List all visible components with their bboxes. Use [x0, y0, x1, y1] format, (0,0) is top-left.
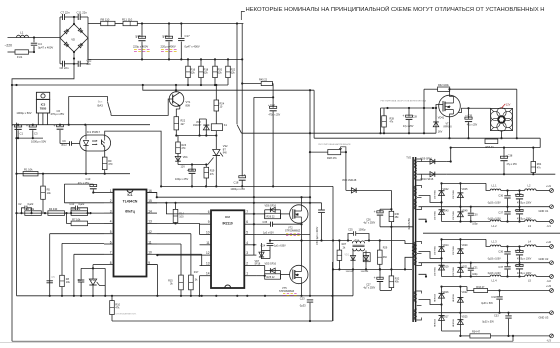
svg-text:VD41: VD41	[438, 117, 445, 120]
wire G1 collect rail	[440, 182, 490, 190]
wire pin11 row	[157, 244, 181, 275]
wire -U3 to terminal	[491, 335, 550, 337]
op-amp IC2 IR2110	[200, 210, 257, 288]
wire G2 collect rail	[440, 238, 490, 246]
wire +U3 rail	[488, 289, 550, 291]
wire -U3 rail	[442, 331, 470, 337]
svg-text:~220: ~220	[5, 44, 13, 48]
resistor R5 10k	[41, 174, 52, 213]
svg-text:HER108: HER108	[434, 318, 436, 327]
svg-text:L1.2: L1.2	[492, 224, 498, 228]
svg-text:VD45: VD45	[462, 188, 469, 191]
wire fan rail left col	[423, 89, 425, 133]
svg-text:GND U3: GND U3	[539, 315, 549, 319]
transformer secondary winding 2	[414, 242, 421, 266]
svg-text:220µ x 400V: 220µ x 400V	[133, 45, 148, 49]
capacitor C6 470u	[51, 109, 65, 144]
svg-text:VD10 SF16: VD10 SF16	[420, 178, 434, 181]
bridge diode top-left	[64, 29, 69, 34]
svg-text:0µ22: 0µ22	[28, 202, 34, 206]
wire +U2 rail	[501, 245, 550, 247]
resistor R29 360	[378, 239, 388, 269]
wire GND U3 rail	[419, 312, 550, 314]
resistor R26 22	[265, 213, 281, 218]
wire VT3 gate	[435, 105, 443, 110]
svg-text:VD6 SF16: VD6 SF16	[265, 205, 277, 208]
svg-text:C3: C3	[34, 131, 38, 135]
svg-text:7805: 7805	[40, 107, 47, 111]
svg-text:+U1: +U1	[546, 184, 552, 188]
zener VD1 12V	[175, 154, 188, 169]
svg-text:10: 10	[148, 251, 152, 255]
svg-text:C36: C36	[498, 250, 503, 253]
wire fuse up to C4	[33, 46, 35, 52]
resistor R7 10k	[67, 213, 105, 226]
svg-text:IR2110: IR2110	[223, 221, 233, 225]
svg-text:13: 13	[206, 261, 210, 265]
svg-text:15ETH06: 15ETH06	[434, 210, 436, 220]
diode VD20 15ETH06	[453, 239, 468, 262]
capacitor C24 1u0 630V	[261, 241, 287, 251]
wire C1 C3 ground rail	[17, 137, 44, 139]
svg-text:15ETH06: 15ETH06	[434, 266, 436, 276]
wire fan bottom lead	[501, 131, 503, 139]
svg-text:1000µ x 50V: 1000µ x 50V	[16, 111, 31, 115]
transformer primary winding	[405, 241, 414, 270]
wire fan top rail	[424, 88, 517, 90]
op-amp IC1 TL494CN	[104, 189, 157, 277]
svg-text:+ C38: + C38	[506, 154, 513, 157]
svg-text:1µ0 x 63V: 1µ0 x 63V	[263, 231, 274, 234]
svg-text:VD25: VD25	[462, 316, 469, 319]
svg-text:GND U2: GND U2	[539, 257, 549, 261]
svg-text:R11 110: R11 110	[122, 17, 133, 21]
svg-text:C33: C33	[494, 315, 499, 318]
resistor R34 47	[470, 331, 491, 338]
terminal +U3	[546, 284, 553, 292]
transistor VT3 IRF640	[439, 89, 461, 128]
terminal GND U3	[539, 311, 554, 320]
svg-text:K1: K1	[224, 123, 228, 127]
svg-text:IC2: IC2	[225, 215, 230, 219]
wire relay col down	[309, 90, 311, 296]
wire supply col 254	[253, 97, 273, 255]
wire G2 tap B	[419, 274, 428, 277]
svg-text:IC1 PC817: IC1 PC817	[87, 130, 101, 134]
bridge diode bottom-right	[78, 43, 83, 48]
wire VT1 collector	[175, 85, 177, 92]
capacitor C33 0u33 50V	[482, 313, 511, 336]
wire left rail x16	[15, 123, 17, 296]
svg-text:TL494CN: TL494CN	[123, 200, 138, 204]
svg-text:2: 2	[110, 199, 112, 203]
svg-text:360: 360	[383, 256, 388, 259]
svg-text:C25: C25	[348, 229, 353, 232]
svg-text:C7 22n: C7 22n	[61, 11, 70, 15]
svg-text:14: 14	[206, 272, 210, 276]
svg-text:11: 11	[206, 241, 210, 245]
svg-text:C16: C16	[163, 34, 169, 38]
wire pin7 row	[74, 254, 104, 295]
capacitor C36 0u33 100V	[488, 191, 511, 207]
svg-text:VD22: VD22	[462, 291, 469, 294]
svg-text:C17: C17	[185, 34, 191, 38]
capacitor C18 1000u 25V	[230, 172, 245, 191]
svg-text:1: 1	[110, 189, 112, 193]
svg-text:ТV2: ТV2	[406, 156, 411, 160]
svg-text:R2 10k: R2 10k	[26, 207, 35, 211]
wire bridge top corner	[73, 16, 75, 25]
diode VD17 HER108	[434, 305, 449, 332]
resistor R27 2k	[337, 239, 350, 269]
wire GND U2 rail	[419, 262, 550, 264]
svg-text:РЕГУЛИРОВКА ОБОРОТОВ ВЕНТИЛЯТО: РЕГУЛИРОВКА ОБОРОТОВ ВЕНТИЛЯТОРА	[381, 100, 427, 103]
capacitor C2 0u22	[18, 202, 34, 213]
svg-text:1: 1	[246, 272, 248, 276]
svg-text:16V: 16V	[438, 131, 443, 134]
svg-text:8: 8	[110, 261, 112, 265]
svg-text:+: +	[374, 210, 376, 214]
capacitor C38 47u 25V	[500, 148, 517, 175]
svg-text:VD20: VD20	[462, 244, 469, 247]
svg-text:НЕКОТОРЫЕ НОМИНАЛЫ НА ПРИНЦИПИ: НЕКОТОРЫЕ НОМИНАЛЫ НА ПРИНЦИПИАЛЬНОЙ СХЕ…	[246, 5, 545, 13]
svg-text:6: 6	[208, 210, 210, 214]
wire lower bus	[11, 84, 228, 86]
inductor L3	[525, 220, 536, 228]
svg-text:470µ x 25V: 470µ x 25V	[51, 112, 65, 116]
page separator line	[0, 342, 560, 344]
wire C27 bottom row	[380, 289, 391, 291]
wire pin2 row	[64, 202, 104, 204]
label regulator	[318, 143, 351, 146]
X-cap box around bridge	[60, 17, 88, 64]
svg-text:6: 6	[246, 220, 248, 224]
wire switch to VT1 base	[111, 99, 173, 115]
capacitor C11 22n	[77, 11, 89, 21]
terminal +U2	[546, 240, 553, 248]
thyristor VS1 TL431	[89, 268, 105, 295]
diode VD25 HER108	[453, 313, 468, 331]
capacitor C37a 0u33 100V	[488, 207, 511, 222]
svg-text:4700µ x 100V: 4700µ x 100V	[517, 258, 532, 260]
svg-text:+U2: +U2	[546, 240, 552, 244]
diode VD10 SF16	[419, 172, 556, 181]
svg-text:R32 100k: R32 100k	[438, 84, 449, 87]
svg-text:4µ7 x 250V: 4µ7 x 250V	[364, 288, 376, 290]
svg-text:R1 10k: R1 10k	[24, 168, 33, 172]
wire VD1 VS2 gate row	[178, 158, 214, 166]
svg-text:809: 809	[186, 103, 191, 107]
svg-text:0µ33: 0µ33	[300, 304, 306, 308]
svg-text:1N4007: 1N4007	[193, 124, 202, 127]
diode VD16 HER108	[434, 287, 449, 305]
svg-text:47µ x 25V: 47µ x 25V	[467, 125, 478, 127]
wire R24 to relay	[215, 111, 217, 124]
transformer fan winding	[415, 159, 422, 180]
bridge diode top-right	[78, 28, 83, 33]
wire IC2 pin12 row	[156, 254, 199, 256]
svg-text:VT1: VT1	[186, 100, 191, 104]
resistor R16 62k	[186, 59, 196, 85]
wire VD3 to R30 col	[390, 190, 392, 211]
svg-text:12V: 12V	[506, 102, 511, 106]
capacitor C40 4700u 100V	[515, 207, 532, 222]
svg-text:C1: C1	[20, 131, 24, 135]
svg-text:C11 22n: C11 22n	[77, 11, 88, 15]
svg-text:3: 3	[246, 251, 248, 255]
svg-text:L1.1: L1.1	[492, 183, 498, 187]
transformer secondary winding 1	[414, 186, 421, 210]
wire VD9 riser	[450, 148, 452, 162]
svg-text:10: 10	[206, 231, 210, 235]
resistor R33 47	[474, 286, 488, 292]
wire VS2 down	[215, 156, 217, 186]
svg-text:BA3: BA3	[98, 104, 104, 108]
wire IC2 pin7 row	[256, 210, 290, 219]
svg-text:C36: C36	[498, 194, 503, 197]
wire pin8 row	[93, 265, 104, 269]
wire pin3 row	[17, 212, 105, 214]
svg-text:15ETH06: 15ETH06	[434, 245, 436, 255]
svg-text:0µ22: 0µ22	[79, 202, 85, 206]
wire pin13 row	[157, 222, 200, 234]
capacitor C35 1u0 63V	[256, 221, 302, 235]
svg-text:GND U1: GND U1	[539, 209, 549, 213]
svg-text:1µ0 x 630V: 1µ0 x 630V	[274, 245, 286, 247]
svg-text:HER108: HER108	[453, 293, 455, 302]
terminal -U1	[547, 220, 554, 228]
wire G1 tap B	[419, 219, 428, 222]
svg-text:9: 9	[208, 220, 210, 224]
svg-text:100p: 100p	[472, 273, 478, 276]
wire IC2 pin14 down	[199, 276, 201, 296]
svg-text:R4 430: R4 430	[49, 207, 58, 211]
transformer TV1	[353, 240, 365, 251]
capacitor C15 220u 400V	[133, 24, 150, 60]
AC input label ~220	[5, 44, 13, 48]
resistor R8b 10k	[60, 275, 71, 296]
svg-text:C30: C30	[473, 213, 478, 216]
wire pin9 down	[147, 265, 158, 296]
resistor R25 22	[256, 271, 280, 280]
svg-text:4700µ x 100V: 4700µ x 100V	[517, 202, 532, 204]
wire +U1 rail	[501, 189, 550, 191]
resistor R18 62k	[199, 59, 209, 85]
wire fan reg left	[380, 108, 382, 133]
resistor R32 100k	[438, 84, 450, 92]
fuse FU1	[8, 50, 36, 59]
capacitor C37b	[488, 263, 511, 277]
svg-text:C37: C37	[498, 211, 503, 214]
bridge diode bottom-left	[64, 42, 69, 47]
wire row1 relay	[242, 132, 437, 134]
svg-text:STP20NM60Z: STP20NM60Z	[285, 230, 301, 233]
capacitor C10 0u22	[69, 202, 87, 213]
svg-text:+: +	[26, 124, 28, 128]
diode VD2 1N4007	[193, 119, 209, 137]
wire G3 tap A	[419, 300, 443, 306]
svg-text:+: +	[402, 114, 404, 118]
wire col 314	[313, 90, 315, 138]
svg-text:C27: C27	[366, 283, 371, 286]
wire C18 column	[241, 24, 243, 177]
capacitor C32 0u33 50V	[481, 291, 502, 313]
svg-text:C37: C37	[498, 266, 503, 269]
wire TV1 to primary	[365, 240, 406, 242]
diode VD19 15ETH06	[434, 258, 449, 276]
svg-text:100p: 100p	[472, 223, 478, 226]
svg-text:14: 14	[148, 209, 152, 213]
svg-text:L1.4: L1.4	[492, 279, 498, 283]
wire pin12 row	[157, 234, 191, 275]
wire GND U1 rail	[419, 206, 550, 208]
svg-text:1000µ x 50V: 1000µ x 50V	[31, 140, 46, 144]
svg-text:C2: C2	[18, 202, 22, 206]
svg-text:5: 5	[246, 231, 248, 235]
svg-text:+ C22: + C22	[268, 104, 275, 107]
svg-text:4: 4	[110, 220, 112, 224]
svg-text:15ETH06: 15ETH06	[453, 210, 455, 220]
svg-text:0µ47 x 400V: 0µ47 x 400V	[38, 46, 53, 50]
svg-text:100: 100	[179, 216, 184, 219]
svg-text:C26: C26	[366, 218, 371, 221]
svg-text:6: 6	[110, 240, 112, 244]
wire bottom bus	[17, 295, 354, 297]
inductor L1.4	[490, 275, 501, 283]
wire opto LED down	[85, 151, 87, 174]
resistor R55 33	[485, 139, 498, 149]
svg-text:L1: L1	[20, 31, 24, 35]
diode VD45 15ETH06	[453, 183, 468, 206]
capacitor C4	[31, 38, 54, 53]
wire bridge right corner to mid bus	[87, 38, 89, 59]
capacitor C27 4u7 250V	[364, 268, 384, 290]
terminal +U1	[546, 184, 553, 192]
inductor L1.3	[490, 239, 501, 246]
resistor R30 45k	[389, 211, 400, 227]
resistor R11 110	[122, 17, 137, 25]
svg-text:4700µ x 100V: 4700µ x 100V	[517, 273, 532, 275]
svg-text:STP20NM60Z: STP20NM60Z	[279, 290, 295, 293]
svg-text:12V: 12V	[181, 165, 186, 168]
wire R1 row	[17, 173, 131, 175]
wire row2 right down	[539, 138, 541, 147]
capacitor C42	[515, 263, 532, 277]
capacitor C13 47u 25V	[64, 177, 104, 203]
wire pin6 row	[62, 243, 104, 275]
resistor R6 47k	[71, 207, 88, 216]
wire IC2 pin5 row	[256, 234, 310, 236]
resistor R10 47k	[110, 296, 121, 321]
svg-text:12: 12	[148, 230, 152, 234]
wire mid bus	[88, 58, 242, 60]
resistor R4 430	[48, 207, 65, 216]
title note	[241, 5, 544, 20]
capacitor C9 0u22	[60, 139, 80, 147]
svg-text:FU1: FU1	[17, 55, 23, 59]
svg-text:C13: C13	[86, 177, 91, 181]
resistor R1 10k	[23, 168, 38, 176]
wire pin16 jog	[147, 193, 158, 199]
capacitor C31 100p	[468, 263, 478, 277]
svg-text:15ETH06: 15ETH06	[453, 266, 455, 276]
svg-text:470µ x 25V: 470µ x 25V	[269, 115, 281, 117]
terminal GND U1	[539, 205, 554, 213]
svg-text:4: 4	[246, 241, 248, 245]
capacitor C5	[47, 275, 56, 283]
wire -U2 rail	[442, 275, 550, 277]
terminal -U3	[547, 334, 554, 343]
bridge rectifier VD diamond	[60, 24, 88, 52]
svg-text:2: 2	[246, 261, 248, 265]
svg-text:VD1: VD1	[345, 255, 350, 257]
resistor R22a 4k7	[174, 117, 186, 136]
wire 12V rail	[12, 124, 150, 126]
svg-text:4µ7 x 250V: 4µ7 x 250V	[364, 223, 376, 225]
wire C26 top	[380, 209, 391, 212]
svg-text:C5: C5	[51, 275, 55, 279]
fan 12V	[491, 102, 513, 131]
inductor L2	[525, 183, 536, 190]
svg-text:47µ x 25V: 47µ x 25V	[507, 164, 518, 166]
diode VD3 1N4148	[342, 179, 391, 193]
wire snubber left col	[332, 186, 334, 321]
svg-text:C28: C28	[413, 116, 418, 119]
wire row2 fan	[314, 137, 540, 139]
label fan regulator	[381, 100, 427, 103]
wire VS1 bracket	[81, 267, 105, 283]
terminal GND U2	[539, 257, 554, 264]
svg-text:C15: C15	[136, 34, 142, 38]
svg-text:R8 110: R8 110	[101, 17, 110, 21]
svg-text:0µ33 x 50V: 0µ33 x 50V	[482, 322, 494, 324]
svg-text:0µ33 x 100V: 0µ33 x 100V	[488, 258, 501, 260]
label shutdown	[116, 313, 137, 315]
diode VD5 SF16	[265, 263, 281, 273]
resistor R19 27k	[204, 165, 215, 187]
svg-text:HER108: HER108	[434, 293, 436, 302]
capacitor C7 22n	[60, 11, 78, 21]
wire pin15 row	[147, 202, 322, 204]
transistor VT2 STP20NM60Z	[285, 205, 308, 236]
svg-text:IRF640: IRF640	[444, 125, 453, 128]
capacitor C36b	[488, 247, 511, 263]
wire bridge plus to R8	[88, 23, 101, 25]
capacitor C19 100u 25V	[175, 165, 195, 187]
svg-text:15ETH06: 15ETH06	[453, 245, 455, 255]
switch BA3 on/off	[98, 96, 112, 115]
svg-text:VS2: VS2	[223, 145, 228, 148]
svg-text:РЕГУЛИРОВКА НАПРЯЖЕНИЯ: РЕГУЛИРОВКА НАПРЯЖЕНИЯ	[318, 143, 351, 146]
wire row 186	[161, 185, 333, 187]
svg-text:VD1: VD1	[183, 156, 188, 159]
transformer TV2 core	[406, 156, 415, 322]
svg-text:7: 7	[246, 210, 248, 214]
potentiometer R28 47k	[327, 147, 347, 160]
wire opto emitter	[104, 147, 106, 157]
wire 7805 out up	[68, 96, 70, 124]
svg-text:100µ x 25V: 100µ x 25V	[175, 177, 188, 181]
inductor L1	[17, 31, 29, 38]
wire top bus +310V	[137, 22, 243, 24]
resistor R20 62k	[213, 59, 223, 85]
diode VD49 15ETH06	[453, 207, 468, 222]
svg-text:R29: R29	[383, 247, 388, 250]
wire R8-R11	[115, 23, 123, 25]
thyristor VS2	[213, 145, 229, 156]
wire fan reg top	[381, 107, 437, 109]
capacitor C1	[11, 124, 23, 138]
